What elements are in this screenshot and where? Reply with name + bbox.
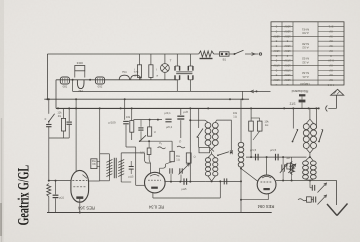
svg-text:M-52: M-52 — [302, 57, 309, 61]
wire mains top line — [47, 53, 190, 55]
left page edge shadow — [1, 118, 2, 242]
resistor R1 3300 — [75, 66, 85, 71]
capacitor C5 — [55, 180, 57, 182]
long vertical x199 — [198, 108, 200, 128]
node j2 — [89, 79, 91, 81]
transformer TR1 primary windings — [176, 54, 178, 66]
svg-text:w: w — [134, 75, 136, 78]
capacitor C12 — [255, 154, 257, 161]
arrow feed — [251, 90, 255, 93]
bus B+ lower — [56, 107, 320, 109]
svg-text:Rückwand: Rückwand — [292, 89, 309, 93]
resistor R13 — [148, 141, 150, 148]
svg-text:A-32: A-32 — [302, 60, 309, 64]
resistor R6 10k — [131, 108, 133, 120]
wire grid bus tube2 — [164, 181, 205, 183]
choke L2 hanging loop — [77, 80, 84, 89]
wire plate drop tube1 — [75, 99, 77, 171]
svg-text:3V: 3V — [329, 34, 333, 38]
capacitor C13 — [275, 154, 277, 161]
svg-text:8V: 8V — [329, 68, 333, 72]
fuse B1 — [220, 52, 230, 56]
capacitor C9 series — [183, 178, 185, 184]
rf transformer T3 upper windings — [190, 119, 205, 121]
capacitor C17 — [309, 181, 311, 188]
svg-text:754: 754 — [122, 70, 127, 74]
capacitor C3 — [124, 99, 126, 120]
svg-text:V8: V8 — [92, 162, 96, 166]
svg-text:150V: 150V — [284, 30, 291, 34]
svg-text:RE 0,34: RE 0,34 — [148, 205, 164, 210]
resistor R4 mains dropper — [191, 53, 199, 55]
svg-text:150V: 150V — [284, 64, 291, 68]
svg-text:1Ω: 1Ω — [233, 114, 236, 118]
svg-text:0.1V: 0.1V — [328, 59, 334, 63]
svg-text:Dw: Dw — [176, 154, 180, 158]
svg-text:μΩ5: μΩ5 — [182, 187, 187, 191]
tube V1 grid — [72, 180, 87, 182]
trimmer C14 — [282, 156, 284, 158]
wire tube2 cathode down — [152, 193, 154, 198]
resistor R11 — [257, 121, 262, 131]
antenna coil LA upper — [309, 108, 311, 119]
antenna coil LB lower — [309, 153, 311, 157]
svg-text:μ/0,2: μ/0,2 — [166, 125, 173, 129]
resistor R7 grid leak — [47, 184, 51, 197]
tube V3 RES094 envelope — [257, 175, 276, 194]
resistor R3 — [149, 65, 153, 78]
switch S1 mains — [229, 53, 234, 55]
wire cathode return — [153, 197, 220, 199]
wire y157 — [246, 156, 307, 158]
svg-text:150V: 150V — [284, 44, 291, 48]
wire cathode tube1 — [79, 199, 81, 213]
choke L3 — [95, 77, 104, 84]
svg-text:RES 094: RES 094 — [257, 204, 274, 209]
svg-text:10k: 10k — [126, 115, 131, 119]
transformer TR1 core — [176, 71, 192, 73]
vertical x239.8 — [240, 99, 242, 142]
tube V2 RE034 envelope — [145, 172, 166, 193]
wire y141 — [140, 140, 172, 142]
rf transformer T3 lower windings — [211, 152, 213, 154]
svg-text:150V: 150V — [273, 49, 280, 53]
svg-text:μΩ1: μΩ1 — [59, 196, 64, 200]
svg-text:M-81: M-81 — [302, 28, 309, 32]
svg-text:081: 081 — [63, 85, 68, 89]
capacitor C10 — [170, 174, 172, 182]
svg-text:w: w — [156, 75, 158, 78]
svg-text:T: T — [170, 59, 172, 63]
svg-text:8V: 8V — [329, 64, 333, 68]
svg-text:12k: 12k — [57, 111, 62, 115]
wire left vertical — [46, 54, 48, 99]
choke L1 — [60, 77, 69, 84]
svg-text:M-80: M-80 — [302, 42, 309, 46]
trimmer C15 — [289, 165, 291, 172]
capacitor C8 stack — [165, 118, 171, 120]
tube V3 cathode — [263, 188, 269, 190]
svg-text:1M: 1M — [286, 156, 290, 160]
svg-text:150V: 150V — [273, 34, 280, 38]
svg-text:100V: 100V — [284, 78, 291, 82]
svg-text:175V: 175V — [284, 59, 291, 63]
svg-text:A-21: A-21 — [302, 75, 309, 79]
bus bottom cathode — [47, 212, 272, 214]
wire grid cap tube2 — [121, 152, 144, 154]
svg-text:10k: 10k — [264, 120, 269, 124]
svg-text:100V: 100V — [284, 25, 291, 29]
capacitor C1 — [48, 122, 50, 124]
svg-text:μ/0,1: μ/0,1 — [164, 111, 171, 115]
switch S7 right — [315, 108, 317, 128]
capacitor C4 — [129, 166, 134, 168]
transformer TR2 core — [113, 158, 115, 178]
resistor R8 — [170, 151, 174, 161]
svg-text:8V: 8V — [329, 30, 333, 34]
svg-text:10k: 10k — [233, 111, 238, 115]
resistor R2 — [137, 65, 141, 78]
connector antenna jack — [318, 107, 320, 109]
wire join y138 — [49, 137, 69, 139]
svg-text:150V: 150V — [284, 49, 291, 53]
svg-text:μ/1,5: μ/1,5 — [270, 148, 277, 152]
ground chassis top-right — [336, 95, 338, 108]
transformer TR2 primary winding — [108, 160, 110, 177]
svg-text:B1: B1 — [223, 58, 227, 62]
svg-text:185V: 185V — [273, 78, 280, 82]
wire grid bus tube3 right — [276, 180, 337, 182]
wire to transformer — [126, 146, 136, 148]
svg-text:175V: 175V — [284, 68, 291, 72]
wire grid tube1 — [49, 180, 71, 182]
node j1 — [72, 79, 74, 81]
transformer TR1 secondary windings — [175, 75, 180, 80]
wire tube3 cathode — [267, 194, 269, 200]
transformer TR2 secondary winding — [120, 160, 122, 177]
wire grid extend — [206, 180, 241, 182]
coil hump L4 — [119, 75, 129, 80]
svg-text:M-32: M-32 — [302, 71, 309, 75]
svg-text:1Ω: 1Ω — [176, 157, 179, 161]
wire return bottom — [72, 80, 74, 92]
capacitor C20 small — [287, 163, 291, 169]
wire drop x48.5 — [48, 99, 50, 114]
svg-text:μ√8: μ√8 — [183, 110, 188, 114]
resistor R5 2G — [63, 108, 65, 118]
svg-text:092: 092 — [98, 85, 103, 89]
switch S6 left — [292, 108, 294, 128]
svg-text:μ/109: μ/109 — [108, 121, 115, 125]
switch S2 — [49, 114, 55, 122]
svg-text:135V: 135V — [284, 34, 291, 38]
bus nodes — [46, 98, 48, 100]
lamp T — [161, 64, 170, 73]
svg-text:1Ω: 1Ω — [265, 123, 268, 127]
svg-text:3300: 3300 — [77, 61, 84, 65]
coil L6 — [238, 142, 244, 147]
svg-text:3Y1: 3Y1 — [328, 25, 333, 29]
trimmer C11 — [179, 168, 181, 173]
connector ST1 strip — [299, 94, 305, 96]
svg-text:μΩ5: μΩ5 — [129, 175, 134, 179]
bus B+ upper — [44, 98, 249, 100]
coil hump L5 — [131, 75, 141, 80]
switch S5 — [230, 152, 232, 154]
tube V1 cathode — [76, 196, 83, 199]
svg-text:2G: 2G — [58, 114, 61, 118]
voltage table — [271, 22, 344, 87]
svg-text:6V: 6V — [329, 73, 333, 77]
svg-text:9V: 9V — [329, 78, 333, 82]
wire filter line — [56, 79, 177, 81]
tube V1 plate line — [73, 186, 86, 188]
svg-text:μ/1,5: μ/1,5 — [250, 148, 257, 152]
svg-text:Geatrix G/GL: Geatrix G/GL — [15, 165, 32, 226]
resistor R12 — [290, 162, 294, 175]
svg-text:3V: 3V — [329, 44, 333, 48]
capacitor C6 — [140, 120, 142, 127]
wire y119.6 — [134, 119, 163, 121]
resistor R9 — [149, 120, 151, 127]
svg-text:0,01: 0,01 — [140, 152, 145, 155]
svg-text:A-52: A-52 — [302, 46, 309, 50]
capacitor C7 big — [180, 108, 182, 115]
switch S3 — [140, 135, 146, 141]
resistor R10 — [250, 108, 252, 121]
resistor R14 — [186, 153, 191, 163]
svg-text:U: U — [154, 130, 156, 134]
wire plate tube1 right — [89, 180, 100, 182]
svg-text:A-50: A-50 — [302, 31, 309, 35]
tube V3 grid — [261, 181, 273, 183]
wire power bottom — [177, 90, 270, 92]
svg-text:ST2: ST2 — [289, 102, 295, 106]
svg-text:8V: 8V — [329, 49, 333, 53]
earth symbol — [336, 181, 338, 206]
node loop rect — [199, 147, 210, 152]
svg-text:T-adjust: T-adjust — [300, 82, 310, 86]
capacitor C18 row — [298, 199, 307, 201]
switch S4 — [197, 129, 203, 138]
capacitor C2 — [68, 108, 70, 121]
long vertical x190 — [189, 108, 191, 181]
wire plate tube2 — [159, 168, 161, 173]
wire tube3 top — [266, 157, 268, 175]
svg-text:175V: 175V — [273, 64, 280, 68]
tube V2 cathode — [151, 187, 158, 189]
svg-text:Ω: Ω — [194, 156, 196, 159]
svg-text:F: F — [45, 117, 47, 121]
terminal mains — [259, 53, 261, 55]
capacitor C19 series — [223, 178, 225, 184]
svg-text:0V: 0V — [329, 39, 333, 43]
svg-text:4·0·8: 4·0·8 — [327, 83, 334, 87]
wire coil to tube3 grid — [240, 168, 242, 170]
svg-text:100V: 100V — [284, 73, 291, 77]
tube V1 RES164 envelope — [71, 170, 89, 202]
tube V2 grid — [148, 179, 161, 181]
